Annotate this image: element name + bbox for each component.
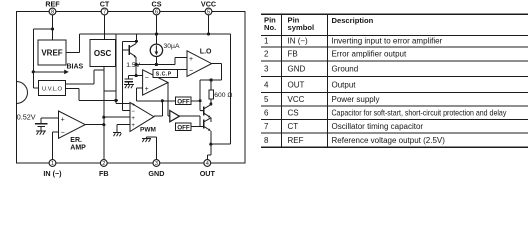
wire resistor bottom to collector node xyxy=(210,99,212,105)
wire pin1 to ER minus xyxy=(53,132,59,160)
svg-text:5: 5 xyxy=(264,95,269,104)
svg-text:Output: Output xyxy=(332,80,357,89)
pin 6 CS xyxy=(153,8,160,15)
pin 7 CT xyxy=(101,8,108,15)
svg-text:+: + xyxy=(189,56,193,63)
svg-text:CT: CT xyxy=(100,0,110,9)
ground G1 xyxy=(124,83,134,85)
wire clamp collector to rail xyxy=(135,34,137,41)
wire OFF1 right stub xyxy=(191,100,200,102)
svg-text:FB: FB xyxy=(99,169,109,178)
wire OSC bottom / FB column xyxy=(103,66,105,159)
svg-text:REF: REF xyxy=(45,0,60,9)
svg-text:Description: Description xyxy=(332,16,374,25)
wire SCP box to L.O minus input xyxy=(178,68,188,70)
svg-text:CS: CS xyxy=(152,0,162,9)
op-amp L.O comparator xyxy=(187,51,212,77)
wire down to resistor xyxy=(210,80,212,90)
svg-text:VCC: VCC xyxy=(288,95,305,104)
wire pin3 GND xyxy=(146,137,156,160)
wire cap branch xyxy=(128,76,136,79)
pin 4 OUT xyxy=(204,160,211,167)
wire internal supply rail xyxy=(80,33,231,35)
svg-text:3: 3 xyxy=(264,65,269,74)
node rail CS crossing xyxy=(155,33,158,36)
svg-text:6: 6 xyxy=(264,109,269,118)
OFF label box upper xyxy=(176,97,191,105)
node UVLO feed junction xyxy=(114,99,117,102)
ground G3 xyxy=(36,130,46,132)
svg-text:VCC: VCC xyxy=(201,0,216,9)
svg-text:−: − xyxy=(145,75,149,82)
wire SCP output down to buffer xyxy=(168,83,170,117)
svg-text:OSC: OSC xyxy=(94,49,112,58)
node PWM out junction xyxy=(161,99,164,102)
OFF label box lower xyxy=(176,123,191,131)
svg-text:8: 8 xyxy=(51,10,54,16)
node OFF1 stub junction xyxy=(199,99,202,102)
battery B1 0.52V reference xyxy=(35,124,47,127)
svg-text:OUT: OUT xyxy=(200,169,216,178)
node collector Q2 xyxy=(209,103,212,106)
svg-text:FB: FB xyxy=(288,50,298,59)
wire FB branch to PWM input3 xyxy=(104,116,130,118)
pin 8 REF xyxy=(49,8,56,15)
svg-text:+: + xyxy=(131,123,135,129)
op-amp S.C.P comparator xyxy=(143,70,168,95)
wire SCP plus feed from PWM out node xyxy=(137,88,143,101)
svg-text:7: 7 xyxy=(103,10,106,16)
wire pin7 CT to OSC xyxy=(104,15,106,39)
wire 0.52V source to ER plus xyxy=(41,118,59,124)
op-amp PWM comparator xyxy=(130,102,154,131)
svg-text:OFF: OFF xyxy=(177,124,190,131)
svg-text:−: − xyxy=(131,109,135,115)
wire UVLO lower output xyxy=(66,89,119,101)
svg-text:−: − xyxy=(189,68,193,75)
node junction pin8 branch xyxy=(51,27,54,30)
node 600 ohm tap xyxy=(210,78,213,81)
svg-text:IN (−): IN (−) xyxy=(288,37,309,46)
svg-text:8: 8 xyxy=(264,136,269,145)
pin 1 IN- xyxy=(49,160,56,167)
wire VREF rail branch down to PWM input 1 xyxy=(116,34,130,104)
svg-text:VREF: VREF xyxy=(41,49,62,58)
svg-text:ER.: ER. xyxy=(70,137,82,144)
svg-text:2: 2 xyxy=(264,50,269,59)
transistor Q2 output upper xyxy=(203,107,205,116)
node FB PWM junction xyxy=(102,116,105,119)
wire VREF right feed up to rail xyxy=(66,34,80,52)
capacitor C1 soft start xyxy=(125,79,133,82)
svg-text:Error amplifier output: Error amplifier output xyxy=(332,50,407,59)
buffer gate to lower driver xyxy=(170,111,180,122)
wire Q2 emitter to Q3 collector xyxy=(210,118,212,122)
wire buffer output xyxy=(179,116,203,126)
node CS junction xyxy=(155,63,158,66)
wire pin6 CS upper stub xyxy=(155,15,157,44)
svg-text:−: − xyxy=(61,129,65,136)
svg-text:PWM: PWM xyxy=(140,126,156,133)
svg-text:symbol: symbol xyxy=(288,23,315,32)
svg-text:+: + xyxy=(145,86,149,93)
svg-text:3: 3 xyxy=(155,161,158,167)
svg-text:1: 1 xyxy=(51,161,54,167)
wire branch left from pin8 node xyxy=(33,29,52,72)
transistor Q1 1.5V clamp xyxy=(128,45,130,55)
svg-text:Inverting input to error ampli: Inverting input to error amplifier xyxy=(332,37,443,46)
svg-text:GND: GND xyxy=(148,169,164,178)
block VREF xyxy=(38,40,66,65)
node emitter CS junction xyxy=(135,63,138,66)
op-amp ER AMP error amplifier xyxy=(59,111,86,138)
svg-text:5: 5 xyxy=(207,10,210,16)
wire emitter down to CS node line xyxy=(135,57,137,76)
node output VCC return junction xyxy=(209,143,212,146)
wire CS node line xyxy=(136,64,175,66)
svg-text:OUT: OUT xyxy=(288,80,305,89)
node BIAS junction xyxy=(32,70,35,73)
svg-text:OFF: OFF xyxy=(177,98,190,105)
svg-text:+: + xyxy=(131,116,135,122)
svg-text:1.5V: 1.5V xyxy=(126,62,140,69)
svg-text:AMP: AMP xyxy=(70,145,86,152)
current source 30uA xyxy=(150,44,162,56)
svg-text:U.V.L.O: U.V.L.O xyxy=(42,87,63,93)
pin 5 VCC xyxy=(205,8,212,15)
svg-text:6: 6 xyxy=(155,10,158,16)
svg-text:Reference voltage output (2.5V: Reference voltage output (2.5V) xyxy=(332,136,446,145)
wire PWM input4 ground stub xyxy=(117,124,130,132)
svg-text:CT: CT xyxy=(288,122,299,131)
wire rail right corner down to output stage xyxy=(211,34,231,144)
pin 2 FB xyxy=(100,160,107,167)
svg-text:+: + xyxy=(131,102,135,108)
wire pin5 VCC stub xyxy=(208,15,210,34)
pin table xyxy=(261,14,528,147)
wire ER AMP output to FB column xyxy=(85,124,104,126)
svg-text:Power supply: Power supply xyxy=(332,95,380,104)
wire PWM output up to distribution node xyxy=(154,101,162,116)
block UVLO U1 xyxy=(39,81,66,96)
svg-text:0.52V: 0.52V xyxy=(17,112,36,121)
wire collector to base (diode connection) xyxy=(122,41,136,110)
svg-text:S.C.P: S.C.P xyxy=(156,72,172,78)
wire CS to L.O plus input xyxy=(175,58,187,65)
node ER output junction xyxy=(102,123,105,126)
node rail VCC junction xyxy=(207,33,210,36)
svg-text:CS: CS xyxy=(288,109,299,118)
svg-text:4: 4 xyxy=(206,161,209,167)
svg-text:Ground: Ground xyxy=(332,65,359,74)
wire to UVLO input xyxy=(33,72,38,88)
pin 3 GND xyxy=(153,160,160,167)
svg-text:Oscillator timing capacitor: Oscillator timing capacitor xyxy=(332,122,424,131)
ground G2 xyxy=(113,132,121,134)
ground G4 xyxy=(142,137,151,139)
svg-text:GND: GND xyxy=(288,65,306,74)
svg-text:1: 1 xyxy=(264,37,269,46)
svg-text:BIAS: BIAS xyxy=(67,64,84,71)
wire to SCP minus input xyxy=(136,75,142,77)
wire PWM out node line xyxy=(137,100,176,102)
wire current source to CS node xyxy=(155,57,157,65)
wire Q3 emitter to pin4 xyxy=(207,131,211,160)
svg-text:600 Ω: 600 Ω xyxy=(214,92,232,99)
wire OSC to UVLO staircase xyxy=(66,70,104,84)
svg-text:4: 4 xyxy=(264,80,269,89)
IC outline box xyxy=(17,12,246,164)
wire L.O output staircase xyxy=(200,64,222,111)
wire pin8 to VREF xyxy=(52,15,54,40)
svg-text:REF: REF xyxy=(288,136,304,145)
node SCP cap junction xyxy=(135,74,138,77)
svg-text:7: 7 xyxy=(264,122,269,131)
package notch xyxy=(17,82,28,104)
wire FB column stub to comparator feed xyxy=(104,90,116,92)
S.C.P label box xyxy=(153,69,178,77)
wire BIAS arrow xyxy=(33,71,64,73)
svg-text:L.O: L.O xyxy=(200,49,212,56)
block OSC xyxy=(90,39,115,66)
node collector junction xyxy=(135,40,138,43)
resistor R1 600 ohm xyxy=(209,90,213,99)
svg-text:+: + xyxy=(61,116,65,123)
svg-text:IN (−): IN (−) xyxy=(43,169,62,178)
svg-text:Capacitor for soft-start, shor: Capacitor for soft-start, short-circuit … xyxy=(332,108,507,118)
svg-text:2: 2 xyxy=(102,161,105,167)
transistor Q3 output lower xyxy=(203,120,205,129)
svg-text:30µA: 30µA xyxy=(164,43,180,50)
svg-text:No.: No. xyxy=(264,23,276,32)
wire base lead xyxy=(122,49,128,51)
